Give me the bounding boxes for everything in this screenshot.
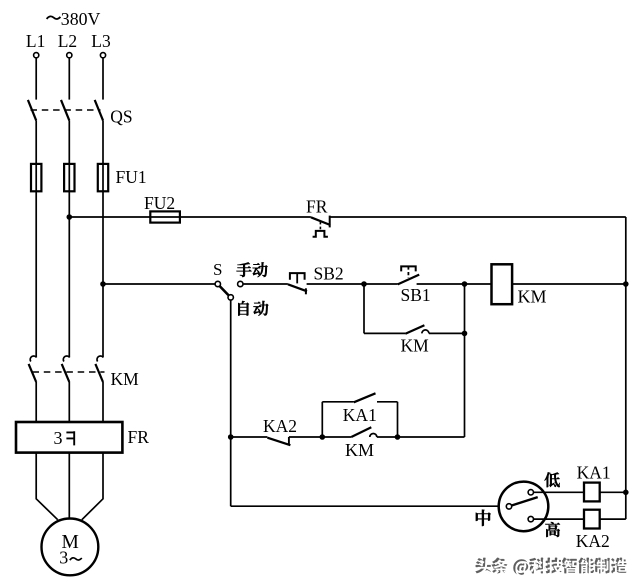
- node KA1/KM parallel right: [395, 434, 401, 440]
- svg-text:3: 3: [59, 548, 68, 568]
- label 低 (low): [545, 472, 560, 487]
- node KA1/KM parallel left: [320, 434, 326, 440]
- terminal L2: [67, 53, 72, 58]
- wire SB1 to node: [417, 283, 465, 285]
- node KA1 / right rail: [623, 490, 629, 496]
- label 中 (middle): [476, 510, 491, 526]
- motor M circle: [42, 519, 99, 576]
- wire L1 to QS: [35, 58, 37, 99]
- contact KM (normally open, lower branch): [322, 427, 397, 437]
- svg-text:KA2: KA2: [576, 531, 610, 551]
- terminal L3: [100, 53, 105, 58]
- svg-text:KM: KM: [401, 335, 430, 355]
- wire KA branch to mid rail: [398, 436, 465, 438]
- wire FR box to motor (L3): [82, 453, 103, 520]
- node junction on L2 for FU2 branch: [67, 214, 73, 220]
- svg-text:L1: L1: [26, 31, 45, 51]
- svg-text:S: S: [213, 260, 222, 279]
- contactor coil KM: [492, 264, 513, 304]
- wire L3 to switch S: [103, 283, 215, 285]
- wire right rail vertical: [625, 217, 627, 519]
- wire FR contact to right rail: [330, 216, 626, 218]
- svg-text:FR: FR: [306, 197, 328, 217]
- label 自动 (auto): [238, 301, 249, 316]
- selector switch S (manual/auto): [215, 281, 243, 300]
- svg-text:L2: L2: [58, 31, 77, 51]
- svg-text:FR: FR: [128, 427, 150, 447]
- wire KM coil to right rail: [512, 283, 626, 285]
- wire left rail bottom to float switch: [231, 505, 499, 507]
- svg-text:KM: KM: [111, 369, 140, 389]
- wire low contact to KA1 coil: [534, 491, 585, 493]
- node SB1/KM-coil junction: [462, 281, 468, 287]
- wire to KM aux contact: [364, 332, 405, 334]
- contact KA1 (normally open, upper branch): [322, 393, 397, 437]
- terminal L1: [34, 53, 39, 58]
- node left rail / KA2 branch: [228, 434, 234, 440]
- wire KA2 contact to node: [289, 436, 322, 438]
- wire KA1 coil to right rail: [600, 491, 626, 493]
- wire auto contact down left rail: [230, 300, 232, 506]
- wire FU2 to FR contact: [180, 216, 311, 218]
- wire left rail to KA2 contact: [231, 436, 268, 438]
- wire FR box to motor (L1): [36, 453, 58, 520]
- svg-text:QS: QS: [110, 107, 132, 127]
- relay coil KA1: [584, 483, 600, 502]
- svg-text:KM: KM: [518, 286, 547, 306]
- wire node to KM coil: [465, 283, 492, 285]
- svg-text:KA1: KA1: [343, 405, 377, 425]
- watermark 头条@科技智能制造: [476, 558, 627, 575]
- label ~380V: [47, 16, 61, 19]
- wire mid rail vertical: [464, 284, 466, 437]
- wire node down to KM aux contact: [363, 284, 365, 333]
- node KM aux / mid rail: [462, 331, 468, 337]
- wire QS to FU1 pole L2: [68, 120, 70, 164]
- svg-text:380V: 380V: [61, 9, 101, 29]
- relay contact KA2 (normally open): [267, 437, 290, 445]
- contactor KM main contacts (3-pole): [29, 356, 105, 422]
- node SB2/SB1 junction: [361, 281, 367, 287]
- fuse FU1 (three fuses): [31, 164, 108, 191]
- wire SB2 to node: [307, 283, 364, 285]
- wire KM aux to right mid rail: [429, 332, 465, 334]
- svg-text:KA2: KA2: [263, 416, 297, 436]
- wire S to SB2: [243, 283, 288, 285]
- wire QS to FU1 pole L3: [102, 120, 104, 164]
- thermal relay contact FR (normally closed): [311, 216, 330, 237]
- svg-text:L3: L3: [91, 31, 111, 51]
- node KM coil / right rail: [623, 281, 629, 287]
- node junction on L3 for control circuit: [100, 281, 106, 287]
- pushbutton SB2 (normally closed stop): [288, 273, 307, 294]
- label 手动 (manual): [237, 262, 252, 277]
- svg-text:KA1: KA1: [577, 462, 611, 482]
- wire high contact to KA2 coil: [534, 518, 585, 520]
- svg-text:3: 3: [54, 428, 63, 448]
- wire L3 FU1 to KM: [102, 191, 104, 356]
- wire KA2 coil to right rail: [600, 518, 626, 520]
- thermal relay FR heater box: [16, 422, 122, 453]
- svg-text:KM: KM: [345, 440, 374, 460]
- wire L3 to QS: [102, 58, 104, 99]
- fuse FU2: [150, 211, 180, 222]
- contact KM auxiliary (normally open, seal-in): [405, 325, 429, 334]
- svg-text:FU1: FU1: [116, 167, 147, 187]
- wire L1 FU1 to KM: [35, 191, 37, 356]
- svg-text:FU2: FU2: [144, 193, 175, 213]
- svg-text:SB1: SB1: [401, 285, 431, 305]
- wire L2 to FU2: [69, 216, 150, 218]
- wire QS to FU1 pole L1: [35, 120, 37, 164]
- label 高 (high): [545, 522, 560, 537]
- pushbutton SB1 (normally open start): [364, 266, 419, 284]
- svg-text:SB2: SB2: [314, 264, 344, 284]
- switch QS (3-pole knife switch): [28, 100, 103, 121]
- wire L2 FU1 to KM: [68, 191, 70, 356]
- wire FR box to motor (L2): [68, 453, 70, 519]
- float level switch (circle): [499, 482, 549, 532]
- heater element symbol: [66, 431, 74, 445]
- relay coil KA2: [584, 510, 600, 529]
- wire L2 to QS: [68, 58, 70, 99]
